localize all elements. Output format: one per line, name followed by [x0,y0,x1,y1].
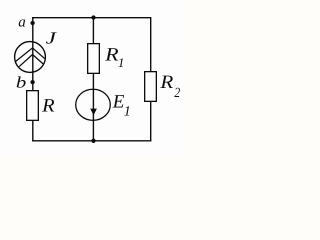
junction dot top middle [91,15,95,19]
wire right branch lower [150,102,152,141]
wire right branch upper [150,18,152,71]
node a junction dot [30,21,34,25]
wire middle branch upper [92,18,94,43]
current source J arrow chevron 2 [19,55,43,67]
svg-text:R: R [159,72,173,93]
svg-text:1: 1 [124,105,131,120]
EMF source E1 circle [76,89,111,120]
wire bottom rail [32,140,151,142]
svg-text:a: a [18,14,26,30]
svg-text:1: 1 [118,55,125,70]
current source J arrow chevron 1 [16,48,45,62]
EMF source E1 arrowhead [90,109,97,116]
svg-text:R: R [104,45,119,66]
resistor R2 [145,72,157,102]
junction dot bottom middle [91,139,95,143]
svg-text:b: b [16,74,26,91]
wire top rail [32,17,151,19]
current source J circle [15,42,46,73]
resistor R1 [88,44,100,74]
resistor R [27,91,39,121]
wire left branch upper (node a through J source to node b and R) [32,18,34,90]
wire left branch lower [32,121,34,141]
svg-text:2: 2 [174,86,180,101]
wire middle branch lower (through E1) [92,74,94,141]
svg-text:R: R [41,95,55,116]
node b junction dot [30,80,34,84]
